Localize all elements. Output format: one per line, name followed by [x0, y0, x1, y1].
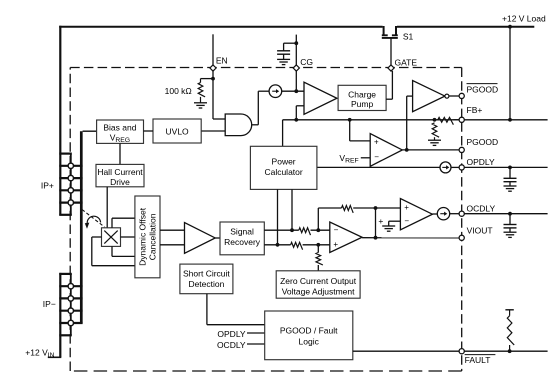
- svg-text:OPDLY: OPDLY: [467, 157, 496, 167]
- svg-text:VIOUT: VIOUT: [467, 226, 493, 236]
- svg-text:OCDLY: OCDLY: [217, 340, 246, 350]
- svg-text:Zero Current Output: Zero Current Output: [280, 276, 357, 286]
- svg-text:S1: S1: [403, 32, 414, 42]
- svg-text:PGOOD: PGOOD: [467, 137, 499, 147]
- svg-text:EN: EN: [216, 55, 228, 65]
- svg-text:Calculator: Calculator: [264, 167, 302, 177]
- svg-text:Recovery: Recovery: [224, 237, 261, 247]
- svg-text:100 kΩ: 100 kΩ: [165, 86, 192, 96]
- svg-text:+: +: [378, 216, 383, 226]
- svg-text:FAULT: FAULT: [465, 355, 491, 365]
- svg-text:Bias and: Bias and: [103, 123, 136, 133]
- svg-text:Charge: Charge: [348, 89, 376, 99]
- svg-text:OCDLY: OCDLY: [467, 204, 496, 214]
- svg-text:PGOOD / Fault: PGOOD / Fault: [280, 325, 338, 335]
- svg-text:Drive: Drive: [110, 177, 130, 187]
- svg-text:+: +: [374, 137, 379, 146]
- svg-text:CG: CG: [300, 57, 313, 67]
- svg-text:GATE: GATE: [395, 58, 418, 68]
- svg-text:Hall Current: Hall Current: [97, 167, 143, 177]
- svg-text:OPDLY: OPDLY: [217, 329, 246, 339]
- svg-text:UVLO: UVLO: [166, 126, 190, 136]
- svg-text:Dynamic Offset: Dynamic Offset: [138, 207, 148, 266]
- svg-text:Cancellation: Cancellation: [148, 213, 158, 260]
- svg-text:Voltage Adjustment: Voltage Adjustment: [282, 286, 355, 296]
- svg-text:−: −: [334, 226, 339, 235]
- svg-text:FB+: FB+: [467, 105, 483, 115]
- svg-text:Detection: Detection: [188, 279, 224, 289]
- svg-text:IP+: IP+: [41, 180, 54, 190]
- svg-text:+12 V Load: +12 V Load: [502, 13, 546, 23]
- svg-text:Power: Power: [272, 156, 296, 166]
- svg-text:Short Circuit: Short Circuit: [183, 269, 230, 279]
- svg-text:−: −: [374, 153, 379, 162]
- svg-text:IP−: IP−: [43, 299, 56, 309]
- svg-text:+: +: [333, 240, 338, 249]
- svg-text:−: −: [404, 216, 409, 225]
- svg-text:Pump: Pump: [351, 99, 373, 109]
- svg-text:+: +: [404, 203, 409, 212]
- svg-text:Logic: Logic: [299, 337, 320, 347]
- svg-text:PGOOD: PGOOD: [467, 84, 499, 94]
- svg-text:Signal: Signal: [230, 227, 254, 237]
